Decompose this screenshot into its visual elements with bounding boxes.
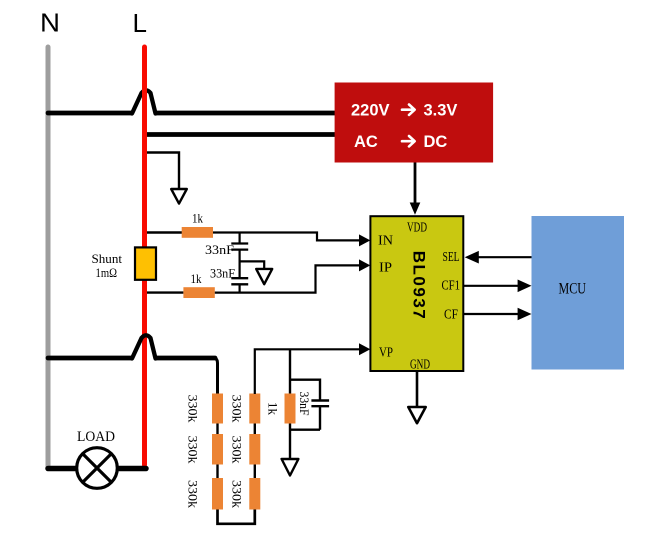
svg-text:1k: 1k: [191, 271, 202, 286]
svg-text:330k: 330k: [186, 436, 201, 465]
wire col1 bottom to col2 bottom: [218, 510, 255, 524]
wire N neutral vertical line: [46, 47, 51, 468]
svg-text:MCU: MCU: [559, 281, 587, 298]
resistor R4 330k (col1 mid): [212, 434, 223, 465]
svg-text:1mΩ: 1mΩ: [96, 266, 118, 280]
svg-text:33nF: 33nF: [210, 266, 235, 281]
wire VDD supply arrow from module to chip: [414, 163, 417, 204]
resistor R8 330k (col2 top): [249, 394, 260, 424]
shunt resistor 1mOhm: [135, 247, 156, 279]
ground (chip GND): [408, 407, 425, 423]
svg-text:BL0937: BL0937: [410, 251, 429, 320]
svg-text:330k: 330k: [186, 480, 201, 509]
resistor R6 330k (col2 bottom): [249, 478, 260, 510]
wire corner down to divider col1: [214, 358, 218, 394]
svg-text:Shunt: Shunt: [92, 251, 123, 266]
wire R1 to IN pin: [213, 233, 360, 241]
wire R2 to IP pin: [215, 265, 360, 292]
svg-text:330k: 330k: [230, 395, 245, 424]
svg-text:220V: 220V: [351, 102, 390, 120]
wire C1 to C2 junction: [239, 250, 241, 279]
ground (between C1 and C2): [256, 269, 272, 284]
svg-text:1k: 1k: [266, 402, 281, 416]
resistor R2 1k (lower, to IP): [145, 291, 183, 293]
AC/DC module 220V->3.3V: [335, 83, 494, 163]
svg-text:N: N: [40, 7, 60, 37]
wire CF chip to MCU: [463, 313, 519, 315]
capacitor C1 33nF (upper): [239, 233, 241, 244]
lamp LOAD symbol: [77, 448, 118, 489]
ground (VP filter): [282, 459, 299, 476]
svg-text:330k: 330k: [186, 395, 201, 424]
svg-text:1k: 1k: [192, 211, 203, 226]
resistor R7 330k (col2 mid): [249, 434, 260, 465]
svg-text:VDD: VDD: [407, 220, 427, 235]
wire N to lamp: [48, 466, 78, 472]
wire L live vertical line (red): [142, 47, 147, 465]
ground (earth near L): [171, 189, 187, 204]
svg-text:DC: DC: [424, 133, 448, 151]
svg-text:VP: VP: [379, 345, 393, 360]
wire L to AC/DC module: [146, 132, 336, 137]
resistor R1 1k (upper, to IN): [145, 231, 182, 233]
wire lamp to L: [116, 466, 146, 472]
wire CF1 chip to MCU: [463, 285, 519, 287]
capacitor C3 33nF (VP filter): [290, 380, 320, 430]
wire R6-R7: [254, 465, 256, 479]
wire divider to VP pin: [255, 349, 360, 394]
wire R7-R8: [254, 424, 256, 435]
resistor R9 1k (VP filter): [289, 349, 291, 393]
svg-text:IN: IN: [378, 233, 393, 248]
wire SEL from MCU to chip: [477, 256, 532, 258]
resistor R5 330k (col1 bottom): [212, 478, 223, 510]
svg-text:33nF: 33nF: [297, 392, 312, 416]
svg-text:CF1: CF1: [442, 278, 461, 293]
wire R4-R5: [216, 465, 218, 479]
wire N to AC/DC module (hump over L): [48, 111, 336, 116]
svg-text:33nF: 33nF: [205, 242, 234, 257]
MCU block: [532, 216, 625, 370]
svg-text:SEL: SEL: [443, 249, 460, 264]
wire junction to ground: [240, 261, 265, 269]
wire GND pin to ground: [416, 371, 419, 407]
svg-text:GND: GND: [410, 357, 430, 372]
svg-text:L: L: [133, 8, 147, 38]
svg-text:3.3V: 3.3V: [424, 102, 458, 120]
resistor R3 330k (col1 top): [212, 394, 223, 424]
svg-text:IP: IP: [379, 260, 392, 275]
arrow glyph line1: [402, 105, 415, 147]
svg-text:LOAD: LOAD: [77, 429, 115, 445]
svg-text:AC: AC: [354, 133, 378, 151]
svg-text:CF: CF: [444, 306, 458, 321]
op-amp U1 BL0937 chip body: [370, 216, 463, 371]
svg-text:330k: 330k: [230, 436, 245, 465]
wire R9 bottom to ground: [289, 424, 291, 460]
wire R3-R4: [216, 424, 218, 435]
capacitor C2 33nF (lower): [231, 277, 248, 279]
wire N to divider (hump over L, lower): [48, 356, 215, 361]
wire L tap to earth ground: [145, 153, 179, 190]
svg-text:330k: 330k: [230, 480, 245, 509]
